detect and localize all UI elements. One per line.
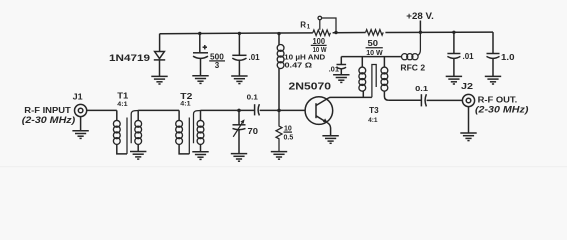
variable capacitor C4 70 [233, 110, 246, 153]
ground (C1) [192, 76, 208, 84]
resistor R3 10 0.5 [276, 110, 282, 151]
inductor L1 10uH 0.47ohm [277, 34, 284, 111]
inductor RFC2 [402, 32, 421, 60]
wire T2 to C3 [201, 109, 255, 111]
ground (C4) [231, 154, 247, 162]
svg-text:T2: T2 [180, 91, 192, 101]
label 50 10W [366, 39, 384, 57]
ground (C7) [446, 76, 462, 84]
svg-text:T3: T3 [369, 105, 379, 115]
resistor R1 100 10W [313, 30, 331, 36]
capacitor C8 1.0 [487, 32, 500, 76]
ground (diode) [151, 76, 167, 84]
svg-text:2N5070: 2N5070 [289, 81, 332, 93]
ground (T1) [130, 152, 146, 160]
connector J1 [75, 104, 87, 130]
capacitor C5 .01 (collector bypass) [337, 57, 347, 75]
svg-text:.01: .01 [249, 53, 261, 62]
wire T3 to C6 [389, 99, 421, 101]
capacitor C6 0.1 output [421, 94, 426, 106]
svg-text:0.1: 0.1 [415, 84, 428, 93]
resistor R2 50 10W [366, 30, 384, 36]
wire collector to T3 [329, 96, 372, 99]
node R1 right [334, 31, 337, 34]
svg-text:3: 3 [215, 61, 220, 70]
svg-text:(2-30 MHz): (2-30 MHz) [475, 105, 528, 115]
svg-text:1: 1 [307, 25, 311, 31]
node bus +28V/RFC2 [419, 31, 422, 34]
svg-text:1N4719: 1N4719 [109, 53, 150, 63]
wire top supply bus [160, 32, 313, 35]
label R1 [300, 21, 311, 31]
node bus-C1 [198, 32, 201, 35]
ground (emitter) [322, 136, 338, 144]
svg-text:(2-30 MHz): (2-30 MHz) [22, 115, 75, 125]
svg-text:RFC 2: RFC 2 [400, 62, 425, 72]
wire bus R1 to R2 [333, 32, 366, 34]
svg-text:R-F OUT.: R-F OUT. [478, 95, 518, 104]
wire collector supply bus [341, 56, 401, 58]
ground (C8) [485, 76, 501, 84]
svg-text:50: 50 [368, 39, 379, 48]
node base/bias [277, 109, 281, 113]
node bus-C2 [238, 32, 241, 35]
svg-text:.01: .01 [329, 64, 339, 73]
wire C3 to base [260, 109, 306, 111]
svg-text:T1: T1 [117, 90, 128, 100]
capacitor C1 500/3 electrolytic [193, 34, 208, 76]
svg-text:R: R [300, 21, 306, 30]
wire T1 to T2 [138, 109, 179, 111]
wire +28V feed [419, 21, 421, 33]
transformer T2 4:1 [176, 110, 204, 153]
connector J2 [462, 94, 474, 133]
faint scan line [0, 166, 567, 168]
ground (C2) [231, 76, 247, 84]
svg-text:4:1: 4:1 [117, 101, 128, 108]
diode D1 1N4719 [154, 34, 165, 77]
capacitor C3 0.1 series [255, 104, 260, 115]
jumper strap across R1 [318, 16, 336, 32]
svg-text:4:1: 4:1 [368, 117, 378, 124]
ground (T2) [192, 152, 208, 160]
svg-text:70: 70 [248, 126, 259, 136]
svg-text:10 W: 10 W [313, 45, 328, 54]
svg-text:4:1: 4:1 [180, 101, 191, 108]
svg-text:J1: J1 [73, 91, 83, 101]
ground (J1) [72, 131, 88, 139]
capacitor C7 .01 (output bypass) [447, 32, 460, 76]
svg-text:J2: J2 [461, 81, 473, 91]
svg-text:R-F INPUT: R-F INPUT [24, 106, 71, 115]
label 10/0.5 [284, 126, 294, 142]
ground (R3) [271, 152, 287, 160]
wire J1 to T1 [87, 109, 117, 111]
capacitor C2 .01 [232, 33, 246, 76]
wire C6 to J2 [427, 99, 463, 101]
node bus-L1 [277, 32, 280, 35]
transistor Q1 2N5070 [305, 97, 333, 136]
label 500/3 [209, 52, 225, 70]
wire bus R2 to right end [385, 31, 493, 33]
ground (J2) [460, 133, 476, 141]
label 10uH AND 0.47ohm [284, 53, 326, 70]
ground (C5) [333, 75, 349, 83]
svg-text:0.1: 0.1 [247, 93, 258, 102]
svg-text:.01: .01 [463, 52, 475, 61]
svg-text:0.5: 0.5 [284, 135, 294, 142]
transformer T1 4:1 [113, 110, 141, 153]
node C4 tap [237, 109, 241, 113]
node bus-C7 [452, 31, 455, 34]
transformer T3 4:1 [359, 57, 389, 101]
label 100 10W [311, 37, 328, 54]
svg-text:+28 V.: +28 V. [406, 11, 434, 21]
svg-text:1.0: 1.0 [501, 53, 515, 62]
svg-text:0.47 Ω: 0.47 Ω [285, 60, 313, 69]
